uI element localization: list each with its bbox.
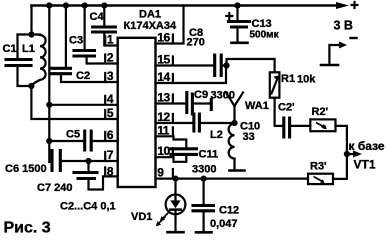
svg-text:C11: C11 <box>199 149 219 161</box>
svg-text:DA1: DA1 <box>139 9 161 21</box>
svg-text:VT1: VT1 <box>354 158 376 172</box>
svg-text:8: 8 <box>107 165 114 179</box>
svg-text:4: 4 <box>107 92 114 106</box>
svg-text:15: 15 <box>157 53 170 67</box>
svg-text:3300: 3300 <box>211 90 235 102</box>
svg-text:270: 270 <box>187 37 205 49</box>
svg-text:C9: C9 <box>194 89 208 101</box>
svg-text:R1: R1 <box>281 73 295 85</box>
svg-text:33: 33 <box>243 131 255 143</box>
svg-text:C2...C4 0,1: C2...C4 0,1 <box>60 201 116 213</box>
svg-text:C6 1500: C6 1500 <box>5 163 47 175</box>
svg-text:C2: C2 <box>76 70 90 82</box>
svg-text:C1: C1 <box>3 43 17 55</box>
svg-text:7: 7 <box>107 148 114 162</box>
svg-text:9: 9 <box>157 166 164 180</box>
svg-text:R3': R3' <box>310 161 327 173</box>
svg-text:2: 2 <box>107 51 114 65</box>
svg-text:L1: L1 <box>22 43 35 55</box>
svg-text:C5: C5 <box>66 129 80 141</box>
svg-text:1: 1 <box>107 33 114 47</box>
svg-text:13: 13 <box>157 91 170 105</box>
svg-text:3: 3 <box>107 69 114 83</box>
svg-text:5: 5 <box>107 106 114 120</box>
svg-text:12: 12 <box>157 110 170 124</box>
svg-text:0,047: 0,047 <box>210 218 238 230</box>
svg-text:16: 16 <box>157 31 170 45</box>
svg-text:500мк: 500мк <box>250 30 280 41</box>
svg-text:14: 14 <box>157 70 170 84</box>
svg-text:6: 6 <box>107 128 114 142</box>
svg-text:C4: C4 <box>90 11 105 23</box>
svg-text:10: 10 <box>157 144 170 158</box>
svg-text:R2': R2' <box>312 106 329 118</box>
svg-text:C12: C12 <box>219 205 239 217</box>
svg-text:C2': C2' <box>278 102 295 114</box>
svg-text:VD1: VD1 <box>131 211 152 223</box>
svg-text:C7 240: C7 240 <box>37 182 72 194</box>
svg-text:11: 11 <box>157 123 170 137</box>
svg-text:10k: 10k <box>297 74 316 86</box>
svg-text:3 В: 3 В <box>334 19 353 33</box>
svg-text:L2: L2 <box>210 129 223 141</box>
svg-text:к базе: к базе <box>349 139 385 153</box>
svg-text:Рис. 3: Рис. 3 <box>4 220 51 237</box>
svg-text:WA1: WA1 <box>245 100 269 112</box>
svg-text:3300: 3300 <box>192 164 216 176</box>
svg-text:C3: C3 <box>69 35 83 47</box>
svg-text:C13: C13 <box>252 18 272 30</box>
